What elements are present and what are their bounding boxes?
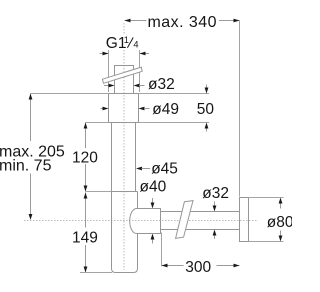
outlet pipe o32 top line xyxy=(161,211,240,213)
dimension o45 arrow xyxy=(136,167,142,171)
extension line wall face xyxy=(239,21,241,197)
dimension o80 xyxy=(280,204,282,209)
dimension 300 xyxy=(162,265,184,267)
dimension 120 xyxy=(85,123,87,149)
union nut o49 xyxy=(109,94,139,123)
extension line pipe start xyxy=(161,233,163,267)
trap body cup xyxy=(112,192,138,273)
svg-text:4: 4 xyxy=(133,40,138,50)
outlet pipe o32 bottom line xyxy=(161,229,240,231)
telescopic tube o45 xyxy=(111,123,113,192)
dimension max.205 min.75 xyxy=(30,94,32,142)
union nut bottom edge xyxy=(109,122,139,124)
svg-text:120: 120 xyxy=(72,149,98,166)
svg-text:ø32: ø32 xyxy=(148,76,175,93)
tilted slip nut on inlet xyxy=(102,67,142,83)
dimension o32 outlet arrows xyxy=(214,202,216,206)
outlet coupling nut xyxy=(130,209,161,234)
dimension G1 1/4 arrows xyxy=(100,53,109,55)
svg-text:50: 50 xyxy=(197,101,215,118)
lower reference line of nut xyxy=(86,122,210,124)
svg-text:min. 75: min. 75 xyxy=(0,157,52,174)
horizontal centerline of outlet pipe xyxy=(24,220,257,222)
dimension 149 xyxy=(85,193,87,228)
top reference line xyxy=(31,93,210,95)
extension line body bottom xyxy=(80,272,112,274)
dimension max. 340 xyxy=(125,20,147,22)
dimension o32 inlet arrows xyxy=(104,85,109,87)
dimension o49 arrows xyxy=(101,108,104,110)
svg-text:ø45: ø45 xyxy=(151,161,178,178)
extension line body top xyxy=(86,191,112,193)
svg-text:ø40: ø40 xyxy=(140,178,167,195)
wall flange o80 xyxy=(240,198,249,242)
svg-text:300: 300 xyxy=(185,259,211,276)
extension line flange top xyxy=(249,197,284,199)
extension line right of thread nut xyxy=(139,50,141,92)
dimension 50 arrows xyxy=(206,85,208,89)
vertical centerline of trap (main segment) xyxy=(123,50,125,270)
vertical centerline of trap (upper segment) xyxy=(123,23,125,34)
extension line left of thread nut xyxy=(108,50,110,92)
svg-text:ø80: ø80 xyxy=(267,214,292,231)
svg-text:ø32: ø32 xyxy=(202,185,229,202)
dimension o40 arrows xyxy=(152,198,154,203)
svg-text:1: 1 xyxy=(124,35,129,45)
svg-text:ø49: ø49 xyxy=(152,101,179,118)
extension line flange bottom xyxy=(249,241,284,243)
tilted wall escutcheon nut on pipe xyxy=(176,201,193,239)
svg-text:max. 340: max. 340 xyxy=(148,14,217,31)
svg-text:149: 149 xyxy=(72,230,98,247)
inlet thread pipe o32 xyxy=(115,66,134,94)
body joint line xyxy=(112,191,138,193)
